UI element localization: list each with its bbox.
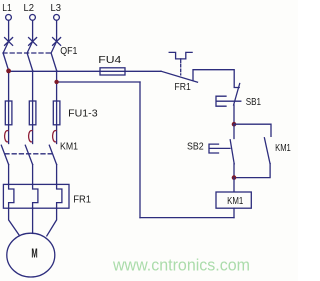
wire control loop left vertical xyxy=(139,82,141,218)
svg-text:L1: L1 xyxy=(2,3,12,14)
FR1 control contact blade xyxy=(161,71,198,82)
fuse FU3 body xyxy=(53,101,60,125)
svg-text:SB2: SB2 xyxy=(187,141,204,152)
junction dot phase3 tap xyxy=(54,80,58,84)
wire control loop bottom xyxy=(140,217,234,219)
breaker QF1 pole3 X contact xyxy=(53,38,61,46)
wire A control tap from phase1 to FR1 contact xyxy=(9,70,161,72)
FR1 heater element 1 xyxy=(9,184,14,208)
svg-text:FR1: FR1 xyxy=(174,82,191,93)
wire B control tap from phase3 xyxy=(57,81,140,83)
FR1 control contact hat xyxy=(169,52,192,59)
svg-text:KM1: KM1 xyxy=(60,142,78,153)
wire blade3 to FR1 box xyxy=(56,165,58,185)
junction dot top xyxy=(232,122,237,127)
coil KM1 box xyxy=(216,192,251,208)
svg-text:www.cntronics.com: www.cntronics.com xyxy=(112,257,250,275)
svg-text:FR1: FR1 xyxy=(73,194,91,205)
pushbutton SB2 actuator E xyxy=(209,144,230,153)
svg-text:M: M xyxy=(31,245,37,260)
junction dot phase1 tap xyxy=(6,69,11,74)
svg-text:L3: L3 xyxy=(51,3,62,14)
breaker QF1 pole3 blade xyxy=(51,42,57,71)
contactor KM1 main contact 1 arc xyxy=(5,131,8,142)
pushbutton SB2 blade xyxy=(230,140,234,164)
pushbutton SB2 top stub xyxy=(233,124,235,138)
FR1 heater element 2 xyxy=(33,184,38,208)
wire FR1 to motor 1 xyxy=(9,208,20,235)
fuse FU1 body xyxy=(5,101,12,125)
breaker QF1 pole1 blade xyxy=(3,42,9,71)
wire blade1 to FR1 box xyxy=(8,165,10,185)
svg-text:QF1: QF1 xyxy=(60,46,78,57)
wire phase1 QF1 to FU1 xyxy=(8,71,10,102)
fuse FU2 body xyxy=(29,101,36,125)
wire phase2 QF1 to FU2 xyxy=(32,71,34,102)
wire L2 drop to QF1 xyxy=(32,21,34,42)
wire coil bottom xyxy=(233,208,235,217)
wire L1 drop to QF1 xyxy=(8,21,10,42)
terminal L2 circle xyxy=(30,15,36,21)
svg-text:L2: L2 xyxy=(24,3,35,14)
contactor KM1 main contact 3 arc xyxy=(53,131,56,142)
contactor KM1 main blade 3 xyxy=(49,145,56,164)
wire FR1 to motor 3 xyxy=(47,208,57,236)
fuse FU4 body xyxy=(100,68,125,75)
wire through FU1 xyxy=(8,101,10,144)
FR1 control right terminal xyxy=(193,70,239,88)
thermal relay FR1 box xyxy=(3,184,69,208)
contactor KM1 main blade 2 xyxy=(25,145,32,164)
contactor KM1 main contact 2 arc xyxy=(29,131,32,142)
breaker QF1 pole2 X contact xyxy=(29,38,37,46)
wire blade2 to FR1 box xyxy=(32,165,34,185)
svg-text:KM1: KM1 xyxy=(227,196,244,207)
wire FR1 to motor 2 xyxy=(32,208,34,233)
svg-text:SB1: SB1 xyxy=(246,97,262,108)
breaker QF1 pole1 X contact xyxy=(5,38,13,46)
FR1 control contact link dashed xyxy=(180,59,182,63)
wire through FU3 xyxy=(56,101,58,144)
FR1 heater element 3 xyxy=(57,184,62,208)
contactor KM1 main blade 1 xyxy=(1,145,8,164)
wire junction to KM1 aux top xyxy=(234,124,271,136)
wire L3 drop to QF1 xyxy=(56,21,58,42)
junction dot bottom xyxy=(232,175,237,180)
wire junction to coil xyxy=(233,178,235,192)
breaker QF1 linkage dashed xyxy=(3,52,53,54)
svg-text:FU1-3: FU1-3 xyxy=(68,108,98,119)
contactor KM1 aux blade xyxy=(264,138,270,164)
pushbutton SB1 actuator E xyxy=(216,96,241,106)
wire KM1 aux bottom xyxy=(234,164,270,178)
motor M circle xyxy=(7,233,55,277)
wire phase3 QF1 to FU3 xyxy=(56,71,58,102)
terminal L1 circle xyxy=(6,15,12,21)
wire through FU2 xyxy=(32,101,34,144)
pushbutton SB1 blade xyxy=(234,84,240,106)
contactor KM1 linkage dashed xyxy=(5,153,53,155)
wire SB2 to junction xyxy=(233,164,235,178)
breaker QF1 pole2 blade xyxy=(27,42,32,71)
svg-text:FU4: FU4 xyxy=(98,55,122,66)
terminal L3 circle xyxy=(54,15,60,21)
wire SB1 to junction xyxy=(233,105,235,124)
svg-text:KM1: KM1 xyxy=(275,143,291,154)
